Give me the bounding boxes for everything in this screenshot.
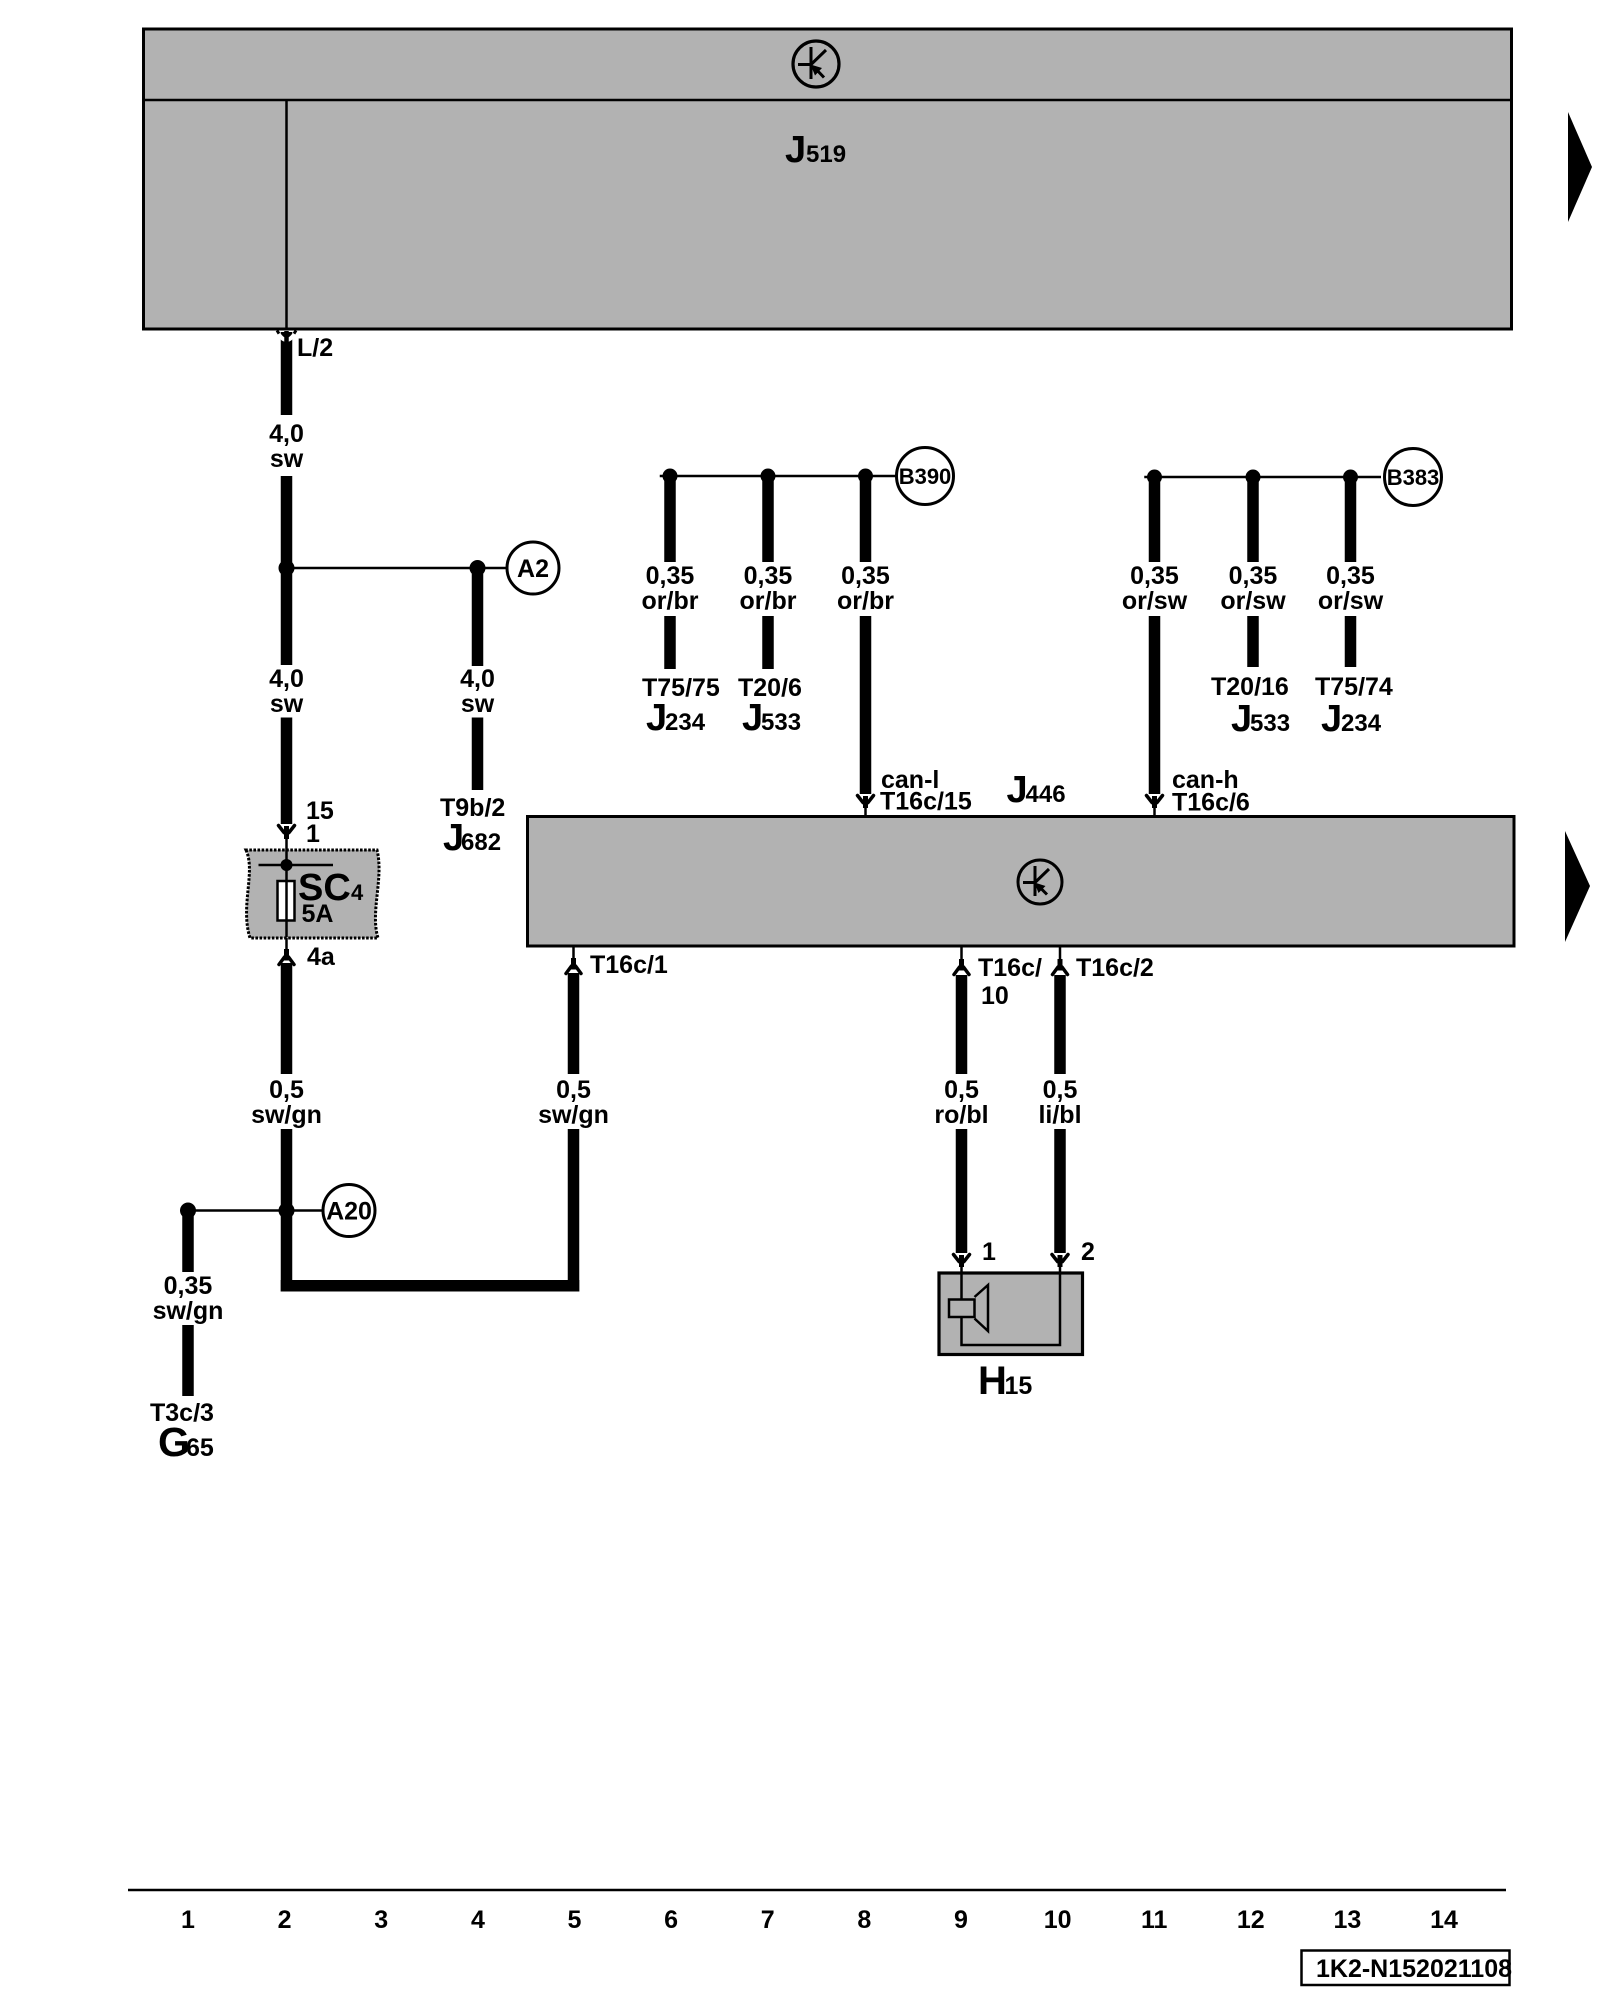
svg-text:7: 7 — [761, 1906, 775, 1934]
svg-text:4: 4 — [471, 1906, 485, 1934]
svg-text:0,5: 0,5 — [1043, 1076, 1078, 1104]
wire segment down to corner — [281, 1129, 293, 1292]
svg-text:9: 9 — [954, 1906, 968, 1934]
svg-text:sw: sw — [461, 690, 495, 718]
wire segment down to fuse SC4 — [281, 718, 293, 825]
pin connector symbol H15 pin 2 — [1052, 1255, 1068, 1273]
control unit J519 (onboard supply control unit box) — [144, 29, 1512, 329]
svg-text:T16c/: T16c/ — [978, 954, 1042, 982]
svg-text:8: 8 — [857, 1906, 871, 1934]
node A20 — [323, 1185, 375, 1237]
pin connector symbol T16c/6 — [1147, 796, 1163, 816]
svg-text:T16c/1: T16c/1 — [590, 951, 668, 979]
svg-text:2: 2 — [1081, 1238, 1095, 1266]
svg-text:sw/gn: sw/gn — [153, 1297, 224, 1325]
wire segment ro/bl upper — [956, 975, 968, 1074]
svg-text:6: 6 — [664, 1906, 678, 1934]
pin connector symbol into fuse (terminal 15/1) — [279, 826, 295, 850]
svg-text:T16c/15: T16c/15 — [880, 788, 972, 816]
continuation arrow right of J519 — [1568, 112, 1592, 222]
svg-text:H: H — [978, 1359, 1007, 1403]
svg-text:J: J — [785, 129, 806, 171]
diagram id box 1K2-N152021108 — [1302, 1951, 1510, 1986]
svg-text:4a: 4a — [307, 943, 336, 971]
svg-text:0,35: 0,35 — [1326, 562, 1375, 590]
control unit J446 (parking aid control unit box) — [528, 817, 1515, 947]
svg-text:12: 12 — [1237, 1906, 1265, 1934]
horizontal wire segment at bottom — [281, 1280, 580, 1292]
svg-text:14: 14 — [1430, 1906, 1458, 1934]
svg-text:10: 10 — [981, 982, 1009, 1010]
svg-text:L/2: L/2 — [297, 334, 333, 362]
node B390 (CAN low connection) — [897, 448, 954, 505]
svg-text:sw/gn: sw/gn — [538, 1101, 609, 1129]
svg-text:2: 2 — [278, 1906, 292, 1934]
wire segment T16c/1 branch lower — [568, 1129, 580, 1292]
junction dot T75/75 wire — [663, 469, 678, 484]
svg-text:0,5: 0,5 — [556, 1076, 591, 1104]
wire segment to J234 T75/75 lower — [664, 616, 676, 669]
svg-text:234: 234 — [1341, 710, 1382, 737]
fuse internal wire — [285, 850, 288, 938]
svg-text:1K2-N152021108: 1K2-N152021108 — [1316, 1955, 1512, 1983]
svg-text:4,0: 4,0 — [460, 665, 495, 693]
junction dot T20/6 wire — [761, 469, 776, 484]
junction dot can-h wire — [1147, 470, 1162, 485]
svg-text:B383: B383 — [1387, 465, 1440, 490]
svg-text:234: 234 — [665, 709, 706, 736]
junction dot of G65 branch — [180, 1203, 196, 1219]
svg-text:or/br: or/br — [740, 587, 797, 615]
junction dot T20/16 wire — [1246, 470, 1261, 485]
pin connector symbol T16c/10 — [954, 947, 969, 975]
fuse internal bus line — [259, 864, 334, 867]
svg-text:0,35: 0,35 — [744, 562, 793, 590]
svg-text:519: 519 — [806, 141, 846, 168]
CAN bus thin link line to B390 — [660, 475, 897, 478]
fuse SC4 holder blob — [246, 850, 379, 938]
svg-text:65: 65 — [186, 1434, 214, 1462]
pin L/2 connector symbol — [277, 331, 296, 416]
node B383 (CAN high connection) — [1385, 449, 1442, 506]
junction dot can-l wire — [858, 469, 873, 484]
wire segment ro/bl lower — [956, 1129, 968, 1253]
wire segment to J533 T20/6 upper — [762, 476, 774, 562]
svg-text:0,5: 0,5 — [269, 1076, 304, 1104]
svg-text:ro/bl: ro/bl — [934, 1101, 988, 1129]
svg-text:446: 446 — [1026, 781, 1066, 808]
wire segment to J234 T75/74 lower — [1345, 616, 1357, 667]
svg-text:J: J — [1321, 698, 1342, 740]
wire segment to G65 upper — [182, 1211, 194, 1273]
svg-text:sw: sw — [270, 690, 304, 718]
pin connector symbol T16c/1 — [566, 947, 581, 974]
svg-text:0,35: 0,35 — [841, 562, 890, 590]
horn internal wire from pin 1 — [960, 1272, 963, 1299]
wire segment can-h lower — [1149, 616, 1161, 794]
horn internal wire to pin 2 — [962, 1272, 1061, 1345]
wire inside J519 down to pin L/2 — [285, 100, 288, 330]
svg-text:4: 4 — [351, 880, 364, 905]
wire segment up to pin T16c/1 — [568, 973, 580, 1074]
K symbol in J446 — [1018, 860, 1062, 904]
pin connector symbol T16c/2 — [1053, 947, 1068, 975]
svg-text:B390: B390 — [899, 464, 952, 489]
K symbol in J519 — [793, 41, 839, 87]
wire segment li/bl lower — [1054, 1129, 1066, 1253]
wire segment to J682 upper — [472, 568, 484, 666]
svg-text:4,0: 4,0 — [269, 420, 304, 448]
junction dot on wire at node A2 — [279, 560, 295, 576]
svg-text:or/br: or/br — [837, 587, 894, 615]
wire segment to J682 lower — [472, 718, 484, 791]
wire to node circle A2 — [287, 567, 508, 570]
svg-text:T20/16: T20/16 — [1211, 673, 1289, 701]
J519 internal divider line — [142, 99, 1513, 102]
svg-text:J: J — [1231, 698, 1252, 740]
svg-text:J: J — [742, 697, 763, 739]
svg-text:533: 533 — [1250, 710, 1290, 737]
wire segment can-h upper — [1149, 477, 1161, 562]
svg-text:5A: 5A — [302, 900, 334, 928]
svg-text:682: 682 — [461, 829, 501, 856]
svg-text:J: J — [1007, 769, 1028, 811]
wire segment to J234 T75/74 upper — [1345, 477, 1357, 562]
svg-text:15: 15 — [1005, 1372, 1033, 1400]
current track scale line — [128, 1889, 1506, 1892]
junction dot T75/74 wire — [1343, 470, 1358, 485]
wire segment 4,0 sw middle — [281, 476, 293, 665]
node A2 — [507, 542, 559, 594]
svg-text:1: 1 — [181, 1906, 195, 1934]
svg-text:T75/74: T75/74 — [1315, 673, 1393, 701]
svg-text:J: J — [646, 697, 667, 739]
svg-text:0,35: 0,35 — [646, 562, 695, 590]
fuse element SC4 — [278, 881, 295, 921]
wire segment can-l upper — [860, 476, 872, 562]
svg-text:1: 1 — [982, 1238, 996, 1266]
svg-text:5: 5 — [568, 1906, 582, 1934]
horn H15 box — [939, 1273, 1083, 1355]
pin connector symbol T16c/15 — [858, 796, 874, 816]
svg-text:T16c/2: T16c/2 — [1076, 954, 1154, 982]
svg-text:or/sw: or/sw — [1220, 587, 1286, 615]
svg-text:13: 13 — [1333, 1906, 1361, 1934]
svg-text:3: 3 — [374, 1906, 388, 1934]
svg-text:T16c/6: T16c/6 — [1172, 789, 1250, 817]
pin connector symbol H15 pin 1 — [954, 1255, 970, 1273]
continuation arrow right of J446 — [1565, 831, 1590, 942]
svg-text:533: 533 — [761, 709, 801, 736]
svg-text:or/br: or/br — [642, 587, 699, 615]
wire segment to J234 T75/75 upper — [664, 476, 676, 562]
current track numbers 1-14 — [181, 1906, 1458, 1934]
svg-text:0,35: 0,35 — [1229, 562, 1278, 590]
svg-text:0,5: 0,5 — [944, 1076, 979, 1104]
horn loudspeaker symbol — [949, 1285, 988, 1331]
wire segment to J533 T20/16 upper — [1247, 477, 1259, 562]
wire segment below fuse — [281, 963, 293, 1074]
wire segment to G65 lower — [182, 1325, 194, 1396]
svg-text:0,35: 0,35 — [164, 1272, 213, 1300]
junction dot of J682 branch — [470, 560, 486, 576]
wire to node circle A20 — [188, 1209, 323, 1212]
pin connector symbol 4a — [279, 938, 294, 965]
svg-text:A2: A2 — [517, 555, 549, 583]
svg-text:sw/gn: sw/gn — [251, 1101, 322, 1129]
junction dot at node A20 — [279, 1203, 295, 1219]
svg-text:10: 10 — [1044, 1906, 1072, 1934]
svg-text:li/bl: li/bl — [1038, 1101, 1081, 1129]
svg-text:A20: A20 — [326, 1198, 372, 1226]
svg-text:1: 1 — [306, 820, 320, 848]
wire segment li/bl upper — [1054, 975, 1066, 1074]
fuse internal junction dot — [281, 859, 293, 871]
svg-text:or/sw: or/sw — [1318, 587, 1384, 615]
wire segment to J533 T20/16 lower — [1247, 616, 1259, 667]
svg-text:4,0: 4,0 — [269, 665, 304, 693]
wire segment can-l lower — [860, 616, 872, 794]
svg-text:sw: sw — [270, 445, 304, 473]
svg-text:or/sw: or/sw — [1122, 587, 1188, 615]
wire segment to J533 T20/6 lower — [762, 616, 774, 669]
CAN bus thin link line to B383 — [1144, 476, 1381, 479]
svg-text:0,35: 0,35 — [1130, 562, 1179, 590]
svg-text:11: 11 — [1141, 1906, 1168, 1934]
